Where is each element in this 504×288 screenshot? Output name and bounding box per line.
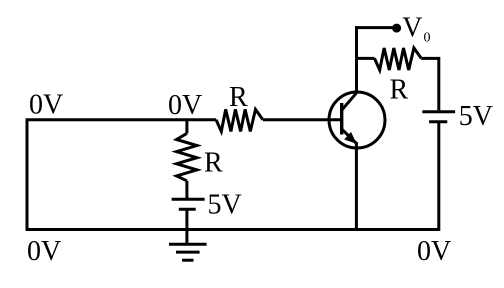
svg-text:0: 0	[424, 31, 431, 46]
svg-text:5V: 5V	[459, 101, 493, 132]
svg-text:0V: 0V	[168, 90, 202, 121]
svg-text:R: R	[390, 75, 409, 106]
svg-text:R: R	[229, 82, 248, 113]
svg-text:0V: 0V	[417, 236, 451, 267]
svg-text:5V: 5V	[208, 190, 242, 221]
svg-text:0V: 0V	[29, 89, 63, 120]
svg-text:0V: 0V	[27, 236, 61, 267]
svg-text:V: V	[402, 12, 422, 43]
svg-text:R: R	[204, 147, 223, 178]
